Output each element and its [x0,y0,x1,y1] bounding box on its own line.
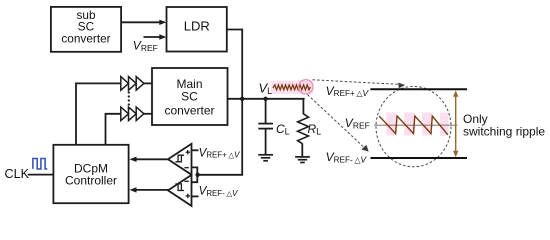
svg-text:VREF: VREF [133,39,158,53]
svg-text:CL: CL [276,122,290,136]
svg-text:CLK: CLK [5,167,30,181]
svg-text:VREF-△V: VREF-△V [199,185,239,198]
svg-text:VREF-△V: VREF-△V [326,150,368,164]
svg-text:Controller: Controller [65,174,117,188]
svg-text:converter: converter [164,104,214,118]
svg-text:converter: converter [61,32,110,46]
svg-text:VREF: VREF [345,116,370,130]
svg-text:VREF+△V: VREF+△V [199,146,241,159]
svg-text:RL: RL [308,122,322,136]
svg-text:LDR: LDR [184,18,210,33]
svg-text:VL: VL [259,81,273,96]
svg-text:switching ripple: switching ripple [463,125,545,139]
svg-text:SC: SC [181,89,198,103]
svg-text:VREF+△V: VREF+△V [326,84,370,98]
